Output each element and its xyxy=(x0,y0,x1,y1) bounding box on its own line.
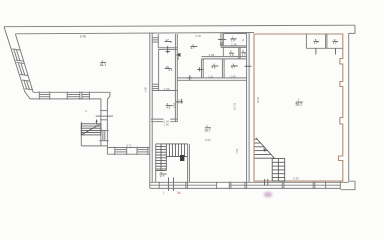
svg-text:4.7: 4.7 xyxy=(231,66,235,70)
bottom band window verticals xyxy=(159,182,340,190)
brown room outline xyxy=(254,34,343,181)
svg-text:4.1: 4.1 xyxy=(168,68,172,72)
stair brown flight2 treads xyxy=(272,162,285,177)
stair brown arrowhead xyxy=(264,148,267,152)
divider rooms 4.5/4.7 xyxy=(221,59,223,78)
wall B east xyxy=(248,32,250,182)
svg-text:9.87: 9.87 xyxy=(293,177,299,181)
wall wing bottom band top line xyxy=(33,92,110,154)
svg-text:1.89: 1.89 xyxy=(164,87,170,91)
stair left enclosure bottom xyxy=(81,145,107,147)
svg-text:8.98: 8.98 xyxy=(80,35,86,39)
svg-text:4.71: 4.71 xyxy=(126,143,132,147)
wall B west xyxy=(246,32,248,182)
stair brown flight2 box xyxy=(272,159,285,182)
svg-text:3а: 3а xyxy=(177,191,181,195)
window slant W2 xyxy=(16,62,28,75)
stair left treads xyxy=(81,126,101,133)
svg-text:2.7: 2.7 xyxy=(160,174,165,178)
door cross at band gap xyxy=(189,75,191,80)
bottom band line1 xyxy=(150,181,349,183)
rooms 5/6 divider xyxy=(238,47,240,59)
door tick room9 xyxy=(335,48,337,54)
window lower strip W1 xyxy=(115,147,127,155)
wall x176 west xyxy=(174,34,176,122)
bottom band line3 xyxy=(150,187,340,189)
door stairwell bottom xyxy=(168,177,170,190)
svg-text:58.2: 58.2 xyxy=(296,103,303,107)
bottom band line2 xyxy=(150,184,340,186)
svg-text:1.3: 1.3 xyxy=(242,53,246,57)
window left-vertical-wall lower xyxy=(99,130,109,140)
stair left diagonal xyxy=(82,125,100,135)
stair left enclosure west wall xyxy=(80,122,82,146)
wall x176 east xyxy=(176,34,178,122)
brown top rooms bottom xyxy=(306,47,342,49)
svg-text:2.11: 2.11 xyxy=(208,74,214,78)
wall slant outer left xyxy=(4,27,30,99)
wall A east line xyxy=(151,33,153,183)
wall room1 bottom band xyxy=(158,47,177,49)
shaft bottom hatch ticks xyxy=(152,84,158,88)
stair left box xyxy=(81,124,101,135)
band under room A xyxy=(221,46,247,48)
stair mid right flight bottom xyxy=(166,156,187,158)
wall x221 upper xyxy=(220,33,222,47)
brown top rooms left wall xyxy=(305,34,307,49)
wall outer top xyxy=(4,25,355,27)
svg-text:10.91: 10.91 xyxy=(233,102,237,110)
wall slant inner left xyxy=(15,34,33,92)
svg-text:1.3: 1.3 xyxy=(230,53,234,57)
svg-text:1.98: 1.98 xyxy=(143,87,147,93)
svg-text:1.86: 1.86 xyxy=(164,123,169,126)
window wing-bottom W1 xyxy=(39,92,50,100)
rooms 5/6 left edge xyxy=(222,47,224,56)
door brown bottom xyxy=(264,179,266,186)
brown top rooms divider xyxy=(325,34,327,49)
stair brown diagonal xyxy=(256,138,275,159)
wall room1 left xyxy=(157,34,159,48)
wall room 4.9 bottom band xyxy=(151,118,177,120)
room A box xyxy=(223,34,246,46)
stair mid dark landing blob xyxy=(180,155,184,161)
window lower strip W2 xyxy=(137,147,148,155)
stairwell left line xyxy=(155,144,157,182)
wall wing bottom band bottom line xyxy=(30,99,101,146)
svg-text:16.91: 16.91 xyxy=(256,96,260,103)
window sill line left wall xyxy=(96,115,113,117)
svg-text:18.1: 18.1 xyxy=(100,63,107,67)
door tick room8 xyxy=(315,48,317,54)
door wall x176 upper xyxy=(178,53,181,56)
wall A west line xyxy=(149,33,151,189)
svg-text:4.7: 4.7 xyxy=(191,46,195,50)
door cross wall x202 xyxy=(197,68,203,70)
svg-text:1.7: 1.7 xyxy=(333,41,337,45)
svg-text:1: 1 xyxy=(163,191,165,195)
svg-text:4.5: 4.5 xyxy=(212,66,216,70)
wall band y57 xyxy=(202,56,247,58)
stair mid left flight treads xyxy=(156,147,167,169)
window slant W1 xyxy=(12,49,24,61)
svg-text:2.38: 2.38 xyxy=(231,43,237,47)
stair mid divider xyxy=(165,144,167,171)
stair left arrow xyxy=(96,121,98,125)
svg-text:1.40: 1.40 xyxy=(178,99,181,104)
svg-text:2.62: 2.62 xyxy=(172,102,176,108)
shaft right line extended / room2 left wall xyxy=(158,49,160,90)
wall x202 xyxy=(201,59,203,78)
svg-text:1.7: 1.7 xyxy=(314,41,318,45)
door cross open area xyxy=(176,101,183,103)
stair mid center line xyxy=(160,144,162,171)
window wing-bottom W3 xyxy=(82,92,90,100)
door tick wall B xyxy=(245,65,252,67)
wall outer bottom-right cap xyxy=(340,181,355,190)
stair mid right flight treads xyxy=(169,144,184,157)
svg-text:4.9: 4.9 xyxy=(166,106,170,110)
window wing-bottom W2 xyxy=(67,92,80,100)
wall outer right step top xyxy=(349,25,355,181)
pink smudge xyxy=(264,192,273,197)
stair mid bottom line xyxy=(156,170,167,172)
svg-text:9.92: 9.92 xyxy=(205,138,211,142)
stairwell right wall xyxy=(187,144,189,182)
stairwell top line xyxy=(156,143,188,145)
stair brown flight1 treads xyxy=(255,139,275,158)
shaft hatch ticks xyxy=(152,38,158,42)
wall cluster bottom band xyxy=(177,77,246,79)
svg-text:16.7: 16.7 xyxy=(204,129,211,133)
door tick wall x221 xyxy=(218,38,226,40)
svg-text:7.62: 7.62 xyxy=(235,148,239,154)
svg-text:3.18: 3.18 xyxy=(195,34,201,38)
wall inner top xyxy=(15,33,254,34)
wall room2 bottom xyxy=(152,90,177,92)
window left-vertical-wall upper ladder ticks xyxy=(100,111,107,120)
window slant W3 xyxy=(22,80,33,90)
stair brown flight2 divider xyxy=(277,159,279,182)
svg-text:2.48: 2.48 xyxy=(230,74,236,78)
wall lower strip band xyxy=(107,147,150,149)
door room1 xyxy=(167,46,169,53)
